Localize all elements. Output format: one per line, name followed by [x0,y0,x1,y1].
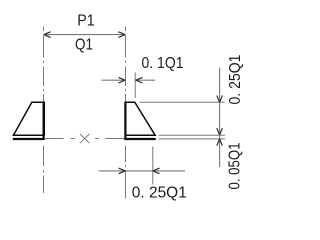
arrowhead up at bottom lower line [217,139,223,146]
svg-text:0. 1Q1: 0. 1Q1 [142,55,184,72]
arrowhead 0.1Q1 right (points left) [136,77,143,83]
dimension line P1/Q1 [44,34,125,36]
lead cross-section right [124,102,155,140]
arrowhead 0.1Q1 left (points right) [118,77,125,83]
arrowhead down at top edge [217,96,223,103]
extension line top edge right [140,101,225,103]
arrowhead down at bottom upper line [217,128,223,135]
svg-text:0. 25Q1: 0. 25Q1 [227,54,244,104]
arrowhead bottom right (points left) [153,168,160,174]
arrowhead bottom left (points right) [119,168,126,174]
centerline right vertical (dash-dot) [125,27,127,199]
svg-text:0. 25Q1: 0. 25Q1 [132,184,187,201]
dimension 0.1Q1 [102,73,156,99]
svg-text:P1: P1 [77,13,95,30]
svg-text:Q1: Q1 [75,37,93,54]
centerline left vertical (dash-dot) [43,27,45,194]
arrowhead P1 right [118,32,125,38]
dimension 0.25Q1 bottom [99,170,185,172]
centerline horizontal (dash-dot) [45,138,126,140]
arrowhead P1 left [44,32,51,38]
svg-text:0. 05Q1: 0. 05Q1 [226,142,243,189]
extension line bottom edge right lower [159,138,225,140]
center cross mark [80,134,89,143]
vertical dimension line right [219,68,221,168]
extension line bottom right [152,147,154,185]
extension line bottom edge right upper [159,134,225,136]
lead cross-section left [13,102,45,140]
